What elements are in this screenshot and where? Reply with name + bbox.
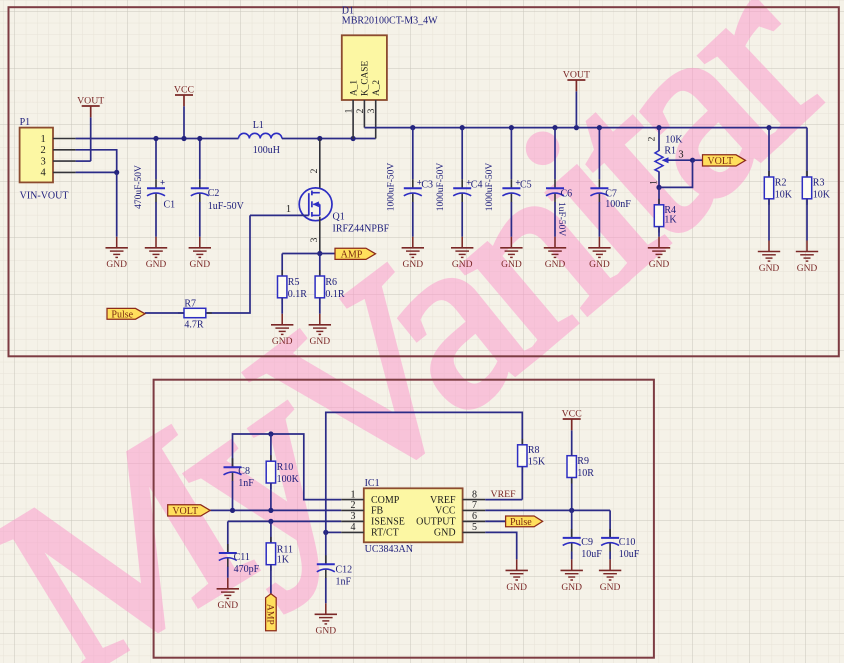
svg-text:C10: C10 [619,537,636,548]
svg-text:GND: GND [501,260,522,270]
svg-text:1: 1 [351,489,356,500]
svg-text:GND: GND [146,260,167,270]
svg-text:VOLT: VOLT [172,506,198,517]
svg-text:0.1R: 0.1R [325,289,345,300]
svg-text:GND: GND [589,260,610,270]
svg-text:GND: GND [316,627,337,637]
svg-text:VIN-VOUT: VIN-VOUT [20,191,69,202]
svg-text:6: 6 [472,511,477,522]
svg-text:GND: GND [797,264,818,274]
svg-text:C5: C5 [520,179,532,190]
svg-text:RT/CT: RT/CT [371,528,399,539]
svg-text:1K: 1K [277,554,290,565]
svg-text:GND: GND [218,601,239,611]
svg-text:R6: R6 [325,277,337,288]
svg-text:A_1: A_1 [349,80,359,96]
svg-text:VREF: VREF [491,489,517,500]
svg-text:C11: C11 [234,552,250,563]
svg-text:100uH: 100uH [253,145,280,156]
svg-text:4.7R: 4.7R [184,319,204,330]
svg-text:10K: 10K [665,134,683,145]
svg-text:4: 4 [41,168,47,179]
svg-text:VOUT: VOUT [563,70,590,81]
svg-text:R9: R9 [577,456,589,467]
svg-text:1000uF-50V: 1000uF-50V [436,163,446,212]
svg-text:VOUT: VOUT [77,96,104,107]
svg-text:1: 1 [286,204,291,215]
svg-text:R1: R1 [664,146,676,157]
svg-text:C2: C2 [208,188,220,199]
svg-text:IRFZ44NPBF: IRFZ44NPBF [333,224,390,235]
svg-text:GND: GND [759,264,780,274]
svg-text:1uF-50V: 1uF-50V [208,201,245,212]
svg-text:100K: 100K [277,474,300,485]
svg-text:A_2: A_2 [372,80,382,96]
svg-text:Pulse: Pulse [510,517,532,528]
svg-text:1nF: 1nF [238,478,254,489]
svg-text:AMP: AMP [265,604,276,625]
svg-text:1: 1 [650,180,660,185]
svg-text:GND: GND [272,337,293,347]
svg-text:100nF: 100nF [605,199,631,210]
svg-text:2: 2 [310,168,320,173]
svg-text:C6: C6 [561,189,573,200]
svg-text:GND: GND [545,260,566,270]
svg-text:C8: C8 [238,466,250,477]
svg-text:15K: 15K [528,457,546,468]
svg-text:K_CASE: K_CASE [361,61,371,96]
svg-text:1nF: 1nF [336,577,352,588]
svg-text:1K: 1K [664,215,677,226]
svg-text:1000uF-50V: 1000uF-50V [485,163,495,212]
svg-text:R8: R8 [528,445,540,456]
svg-text:2: 2 [648,136,658,141]
svg-text:2: 2 [351,500,356,511]
svg-text:C9: C9 [581,537,593,548]
svg-text:P1: P1 [20,117,31,128]
svg-text:3: 3 [310,237,320,242]
svg-text:L1: L1 [253,120,264,131]
svg-text:C1: C1 [164,200,176,211]
svg-text:3: 3 [678,150,683,161]
svg-text:1: 1 [41,134,46,145]
svg-text:0.1R: 0.1R [288,289,308,300]
svg-text:5: 5 [472,522,477,533]
svg-text:R3: R3 [813,178,825,189]
svg-text:GND: GND [403,260,424,270]
svg-text:OUTPUT: OUTPUT [416,517,455,528]
svg-text:GND: GND [190,260,211,270]
svg-text:ISENSE: ISENSE [371,517,405,528]
svg-text:3: 3 [351,511,356,522]
svg-text:R7: R7 [184,299,196,310]
svg-text:VREF: VREF [430,495,456,506]
svg-text:C12: C12 [336,565,353,576]
svg-text:10R: 10R [577,468,594,479]
svg-text:VOLT: VOLT [707,156,733,167]
svg-text:VCC: VCC [435,506,456,517]
svg-text:1000uF-50V: 1000uF-50V [386,163,396,212]
svg-text:10K: 10K [813,190,831,201]
svg-text:GND: GND [452,260,473,270]
svg-text:470uF-50V: 470uF-50V [134,165,144,209]
svg-text:C4: C4 [471,179,483,190]
svg-text:MBR20100CT-M3_4W: MBR20100CT-M3_4W [342,15,438,26]
svg-text:GND: GND [506,583,527,593]
svg-text:VCC: VCC [174,85,194,96]
svg-text:10uF: 10uF [619,549,640,560]
svg-text:10uF: 10uF [581,549,602,560]
svg-text:GND: GND [561,583,582,593]
svg-text:C3: C3 [421,179,433,190]
svg-text:GND: GND [600,583,621,593]
svg-text:Pulse: Pulse [111,309,133,320]
svg-text:2: 2 [41,145,46,156]
svg-text:Q1: Q1 [333,212,345,223]
svg-text:R5: R5 [288,277,300,288]
svg-text:8: 8 [472,489,477,500]
svg-text:AMP: AMP [341,249,363,260]
svg-text:7: 7 [472,500,477,511]
svg-text:GND: GND [106,260,127,270]
svg-text:GND: GND [434,528,456,539]
svg-text:4: 4 [351,522,356,533]
svg-text:1uF-50V: 1uF-50V [556,202,566,236]
svg-text:UC3843AN: UC3843AN [365,544,413,555]
svg-text:VCC: VCC [562,409,582,420]
svg-text:R10: R10 [277,462,294,473]
svg-text:R2: R2 [775,178,787,189]
svg-text:+: + [160,177,165,187]
svg-text:GND: GND [649,260,670,270]
svg-text:10K: 10K [775,190,793,201]
svg-text:IC1: IC1 [365,478,380,489]
svg-text:470pF: 470pF [234,564,260,575]
svg-text:3: 3 [41,156,46,167]
svg-text:FB: FB [371,506,384,517]
svg-text:COMP: COMP [371,495,400,506]
svg-text:GND: GND [310,337,331,347]
